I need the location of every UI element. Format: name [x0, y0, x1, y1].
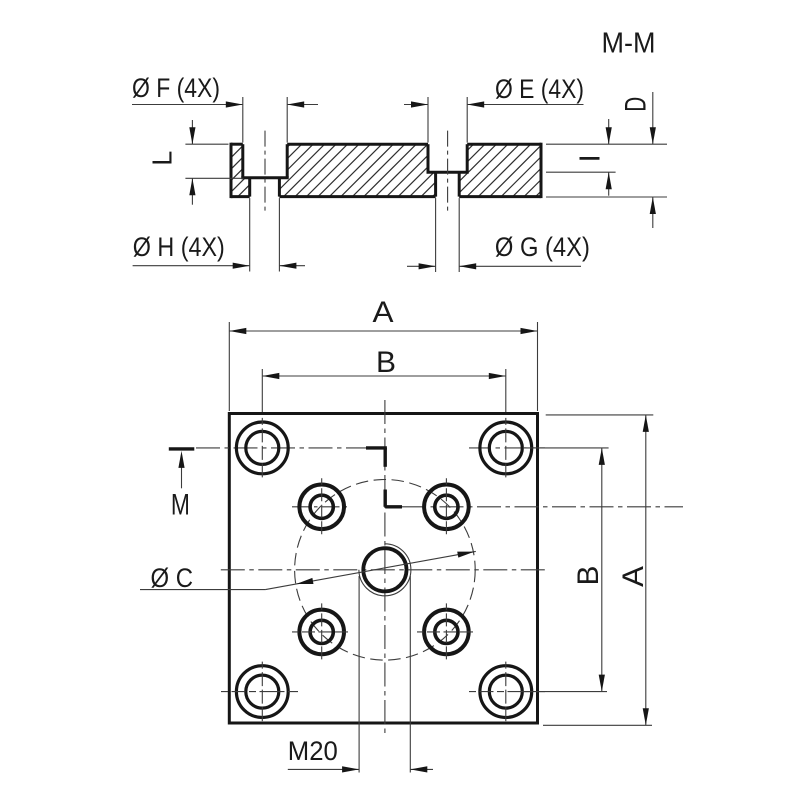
- svg-text:M20: M20: [288, 736, 338, 766]
- section line M-M dash-dot through top hole row: [196, 447, 366, 449]
- section line thick step corner: [366, 448, 402, 507]
- dimension A top: plate width: [229, 296, 537, 411]
- bottom-left corner hole horizontal centerline: [221, 691, 298, 693]
- section line thick end bar at M arrow: [169, 447, 195, 450]
- right-side extension lines: [546, 144, 667, 197]
- counterbored hole E/G in section (right): [427, 144, 469, 196]
- corner counterbored hole at (262.3,447.9): [236, 418, 288, 478]
- centre hole M20 tapped: minor dia circle: [363, 548, 406, 591]
- corner counterbored hole at (505.8,691.6): [480, 662, 532, 722]
- svg-text:B: B: [572, 566, 605, 586]
- svg-text:D: D: [619, 97, 652, 112]
- section line M-M dash-dot through inner hole row: [402, 506, 683, 508]
- dimension L: counterbore depth left: [147, 120, 244, 205]
- centre hole thread major dia thin arc: [359, 544, 411, 596]
- dimension D: plate thickness: [619, 92, 655, 228]
- svg-text:M-M: M-M: [602, 28, 656, 60]
- dimension OF (4X): counterbore dia left hole: [132, 73, 318, 143]
- dimension B top: corner hole spacing: [262, 346, 506, 412]
- svg-text:L: L: [147, 151, 178, 166]
- dimension B right: corner hole spacing vertical: [523, 448, 609, 692]
- centerline hole F/H section: [264, 131, 266, 212]
- dimension M20: centre thread: [288, 576, 433, 773]
- svg-text:Ø F (4X): Ø F (4X): [132, 73, 220, 103]
- M view-direction arrow: [178, 451, 184, 488]
- lower-right inner hole horizontal centerline: [417, 631, 475, 633]
- bottom-right corner hole horizontal centerline: [469, 691, 545, 693]
- dimension OG (4X): through dia right hole: [407, 198, 590, 272]
- dimension OC: bolt circle diameter leader: [140, 549, 476, 593]
- dimension OH (4X): through dia left hole: [133, 198, 305, 271]
- counterbored hole F/H in section (left): [241, 144, 288, 196]
- lower-left inner hole horizontal centerline: [292, 631, 351, 633]
- svg-text:B: B: [376, 346, 396, 379]
- centerline hole E/G section: [447, 131, 449, 212]
- svg-text:A: A: [617, 566, 650, 587]
- inner counterbored hole at (446.4,506.8): [424, 478, 469, 535]
- plan view plate outline: [229, 414, 537, 724]
- plate vertical centerline: [384, 400, 386, 733]
- section line M-M dash-dot top-right hole: [469, 447, 545, 449]
- inner counterbored hole at (446.4,631.9): [424, 603, 469, 660]
- svg-text:Ø H (4X): Ø H (4X): [133, 232, 225, 262]
- inner counterbored hole at (321.7,506.8): [299, 478, 344, 535]
- inner counterbored hole at (321.7,631.9): [299, 603, 344, 660]
- dimension I: counterbore depth right: [575, 119, 612, 196]
- svg-text:M: M: [171, 489, 190, 522]
- svg-text:Ø E (4X): Ø E (4X): [495, 74, 584, 104]
- dimension OE (4X): counterbore dia right hole: [404, 74, 584, 143]
- bolt circle dashed (dia C): [295, 480, 476, 661]
- corner counterbored hole at (262.3,691.6): [236, 662, 288, 722]
- svg-text:Ø C: Ø C: [151, 563, 194, 593]
- svg-text:A: A: [373, 296, 394, 329]
- svg-text:I: I: [575, 154, 607, 162]
- svg-text:Ø G (4X): Ø G (4X): [495, 232, 590, 262]
- centre hole horizontal centerline: [221, 569, 545, 571]
- corner counterbored hole at (505.8,447.9): [480, 418, 532, 478]
- inner row left hole horizontal centerline: [292, 506, 351, 508]
- dimension A right: plate height: [543, 415, 653, 725]
- section plate outline: [231, 143, 541, 198]
